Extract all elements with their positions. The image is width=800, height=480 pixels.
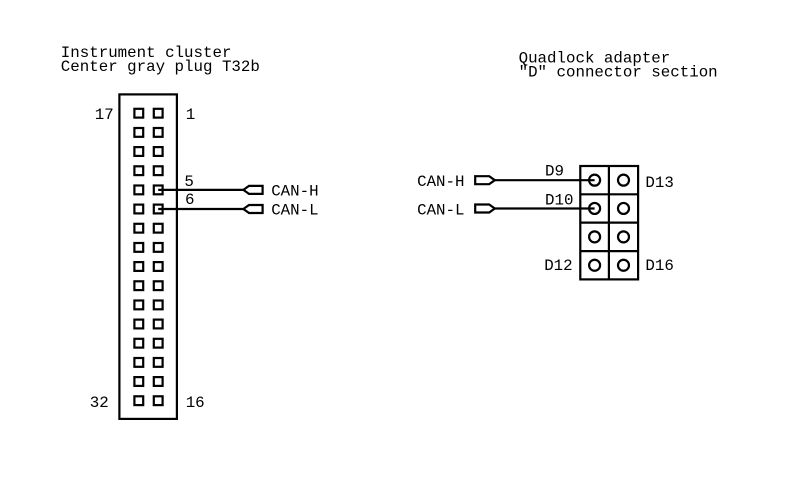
svg-text:1: 1	[186, 106, 195, 124]
svg-text:CAN-L: CAN-L	[417, 201, 464, 219]
wire: T32b pin 6 to CAN-L terminal	[158, 208, 243, 210]
svg-text:CAN-H: CAN-H	[417, 173, 464, 191]
svg-text:5: 5	[184, 173, 193, 191]
svg-text:17: 17	[95, 106, 114, 124]
Quadlock D-connector row divider 3	[580, 250, 638, 252]
terminal lug CAN-H (right diagram)	[475, 176, 495, 184]
svg-text:CAN-L: CAN-L	[271, 202, 318, 220]
connector T32b body outline	[119, 94, 176, 419]
Quadlock D-connector row divider 2	[580, 222, 638, 224]
Quadlock D-connector body outline	[580, 166, 638, 279]
Quadlock D-connector column divider	[608, 166, 610, 279]
terminal lug CAN-L (left diagram)	[243, 205, 262, 213]
svg-text:D12: D12	[544, 257, 572, 275]
terminal lug CAN-L (right diagram)	[475, 205, 495, 213]
svg-text:CAN-H: CAN-H	[271, 183, 318, 201]
connector T32b pin square grid (pins 1-32)	[134, 109, 162, 405]
svg-text:6: 6	[185, 191, 194, 209]
svg-text:"D" connector section: "D" connector section	[519, 64, 718, 82]
Quadlock D-connector pin circles	[589, 175, 629, 271]
svg-text:D13: D13	[645, 174, 673, 192]
wire: CAN-L terminal to Quadlock pin D10	[495, 207, 595, 209]
svg-text:D9: D9	[545, 162, 564, 180]
svg-text:16: 16	[186, 394, 205, 412]
svg-text:32: 32	[90, 394, 109, 412]
terminal lug CAN-H (left diagram)	[243, 186, 262, 194]
wire: T32b pin 5 to CAN-H terminal	[158, 189, 243, 191]
wire: CAN-H terminal to Quadlock pin D9	[495, 179, 595, 181]
svg-text:Center gray plug T32b: Center gray plug T32b	[61, 58, 260, 76]
svg-text:D10: D10	[545, 192, 573, 210]
svg-text:D16: D16	[645, 257, 673, 275]
Quadlock D-connector row divider 1	[580, 193, 638, 195]
